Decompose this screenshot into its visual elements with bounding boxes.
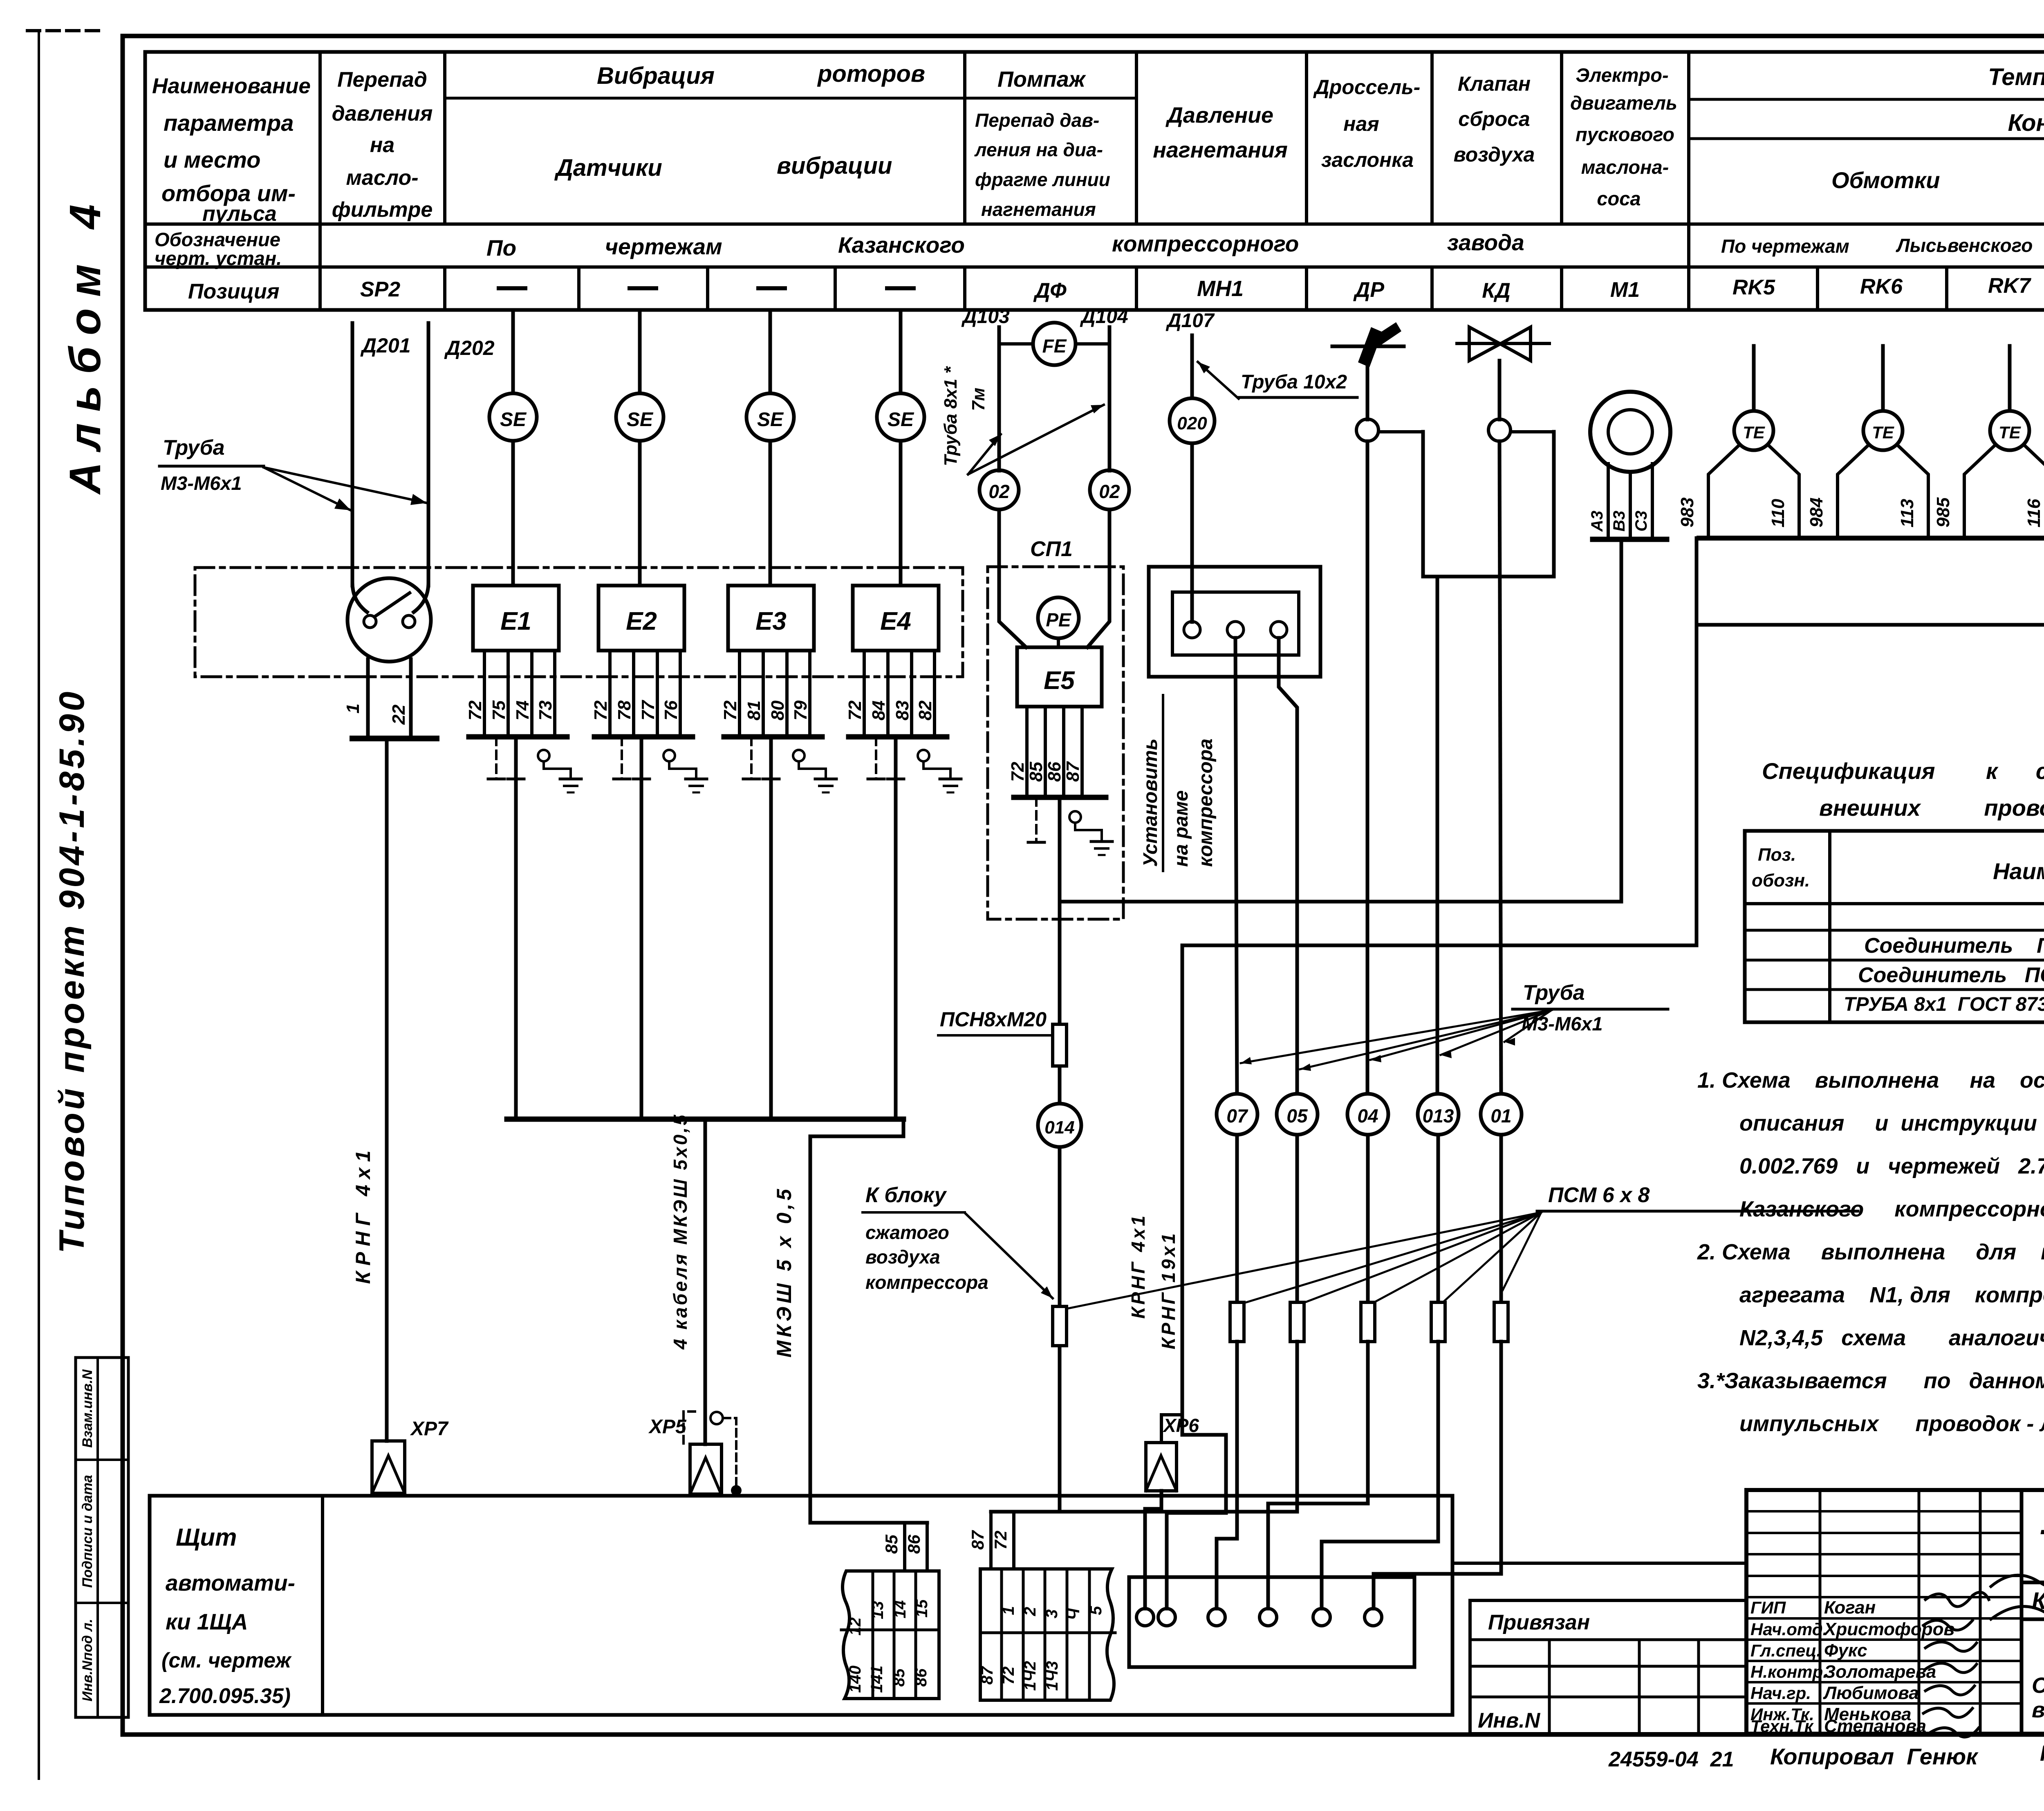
air jog box bottom (1423, 575, 1554, 579)
PSM connector on 04 line (1361, 1302, 1375, 1342)
Е4 ground bar 2 (888, 778, 904, 781)
Е4 ground symbol (940, 778, 961, 781)
SE2 wire from table (638, 310, 642, 393)
svg-text:СП1: СП1 (1030, 537, 1073, 561)
terminal strip circle 1 (1136, 1609, 1154, 1626)
air jog box left vertical (1421, 432, 1425, 577)
wire 07 upper (1235, 638, 1237, 1099)
svg-text:МКЭШ 5 х 0,5: МКЭШ 5 х 0,5 (773, 1186, 796, 1358)
position row divider x4762 (1945, 267, 1948, 310)
cable 4x MKESh to XP5 (704, 1119, 707, 1444)
svg-text:983: 983 (1677, 498, 1697, 527)
terminal strip circle 5 (1313, 1609, 1330, 1626)
Е2 ground symbol (686, 778, 707, 781)
junction horizontal 05-PSN (991, 1510, 1297, 1514)
PSN8xM20 connector (1053, 1024, 1067, 1066)
privjazan top line (1452, 1562, 1746, 1565)
spec row line 2 (1745, 959, 2044, 962)
TE collection bus (1699, 536, 2044, 541)
privjazan row 3 (1470, 1696, 1746, 1699)
wire 04 lower (1366, 1135, 1370, 1302)
svg-text:Д104: Д104 (1080, 306, 1128, 328)
svg-text:автомати-: автомати- (166, 1570, 295, 1596)
svg-text:141: 141 (868, 1665, 886, 1693)
Е4 terminal stub 72 (863, 651, 866, 736)
svg-text:Нач.отд.: Нач.отд. (1750, 1620, 1827, 1639)
E group collection bus (507, 1117, 903, 1122)
svg-text:140: 140 (846, 1665, 864, 1693)
svg-text:нагнетания: нагнетания (1153, 138, 1288, 162)
butterfly valve symbol (1457, 342, 1549, 345)
Е2 terminal stub 77 (656, 651, 659, 736)
wire 01 step to terminal (1374, 1342, 1501, 1609)
svg-text:Е1: Е1 (500, 607, 531, 635)
svg-text:описания и инструкции п: описания и инструкции по эксплуатации (1739, 1111, 2044, 1136)
svg-text:78: 78 (614, 700, 634, 720)
svg-text:сжатого: сжатого (865, 1222, 949, 1243)
svg-text:SE: SE (757, 409, 784, 431)
svg-text:ГИП: ГИП (1750, 1598, 1786, 1617)
SE3 wire to E3 (769, 441, 772, 586)
svg-text:ки 1ЩА: ки 1ЩА (166, 1609, 248, 1634)
svg-text:внешних проводок.: внешних проводок. (2032, 1698, 2044, 1722)
ustanovit circle 3 (1271, 622, 1287, 638)
svg-text:85: 85 (890, 1668, 908, 1687)
svg-text:014: 014 (1044, 1118, 1074, 1138)
svg-text:Перепад дав-: Перепад дав- (975, 110, 1099, 131)
valve circle right (1488, 419, 1511, 441)
svg-text:Давление: Давление (1165, 103, 1273, 128)
svg-text:Перепад: Перепад (337, 68, 427, 92)
wire D104 (1108, 327, 1112, 471)
svg-text:86: 86 (1044, 762, 1065, 782)
Е2 ground bar 2 (633, 778, 650, 781)
position row divider x2780 (1135, 267, 1138, 310)
orifice circle 02 left (979, 470, 1019, 509)
svg-text:черт. устан.: черт. устан. (155, 247, 282, 269)
header column line x2360 (963, 52, 966, 224)
connector XP6 funnel (1146, 1443, 1177, 1491)
svg-text:Щит: Щит (176, 1524, 237, 1551)
orifice circle 020 (1170, 398, 1215, 443)
svg-text:22: 22 (389, 705, 409, 725)
pressure point circle 05 (1277, 1094, 1318, 1135)
privjazan box (1470, 1600, 1746, 1734)
SE1 wire to E1 (511, 441, 515, 586)
stamp column line 1 (76, 1459, 128, 1461)
svg-text:Обмотки: Обмотки (1831, 167, 1940, 193)
svg-text:N2,3,4,5 схема аналоги: N2,3,4,5 схема аналогична. (1739, 1326, 2044, 1350)
SE4 wire to E4 (899, 441, 903, 586)
wire 04 upper (1366, 441, 1369, 1100)
svg-text:04: 04 (1357, 1105, 1378, 1127)
svg-text:TE: TE (1999, 423, 2022, 442)
Е1 output cable (514, 737, 518, 1119)
svg-text:фрагме линии: фрагме линии (975, 169, 1110, 190)
svg-text:72: 72 (991, 1530, 1010, 1550)
svg-text:роторов: роторов (817, 61, 925, 87)
title designation cell line (2022, 1581, 2044, 1584)
Е3 ground tie circle (793, 750, 805, 761)
position row divider x3820 (1560, 267, 1563, 310)
svg-text:В3: В3 (1610, 511, 1628, 532)
position row divider x1731 (706, 267, 709, 310)
svg-text:Любимова: Любимова (1823, 1683, 1919, 1703)
svg-text:Коган: Коган (1824, 1598, 1876, 1618)
svg-text:Помпаж: Помпаж (997, 67, 1087, 92)
svg-text:обозн.: обозн. (1752, 871, 1810, 891)
row2 divider col1 (318, 224, 322, 267)
svg-text:1Ч2: 1Ч2 (1021, 1661, 1039, 1691)
header table outer (145, 52, 2044, 310)
svg-text:Привязан: Привязан (1488, 1611, 1590, 1634)
svg-text:72: 72 (465, 700, 485, 720)
row2 divider col mid (1687, 224, 1690, 267)
machine boundary dash-dot box (195, 568, 963, 677)
svg-text:К блоку: К блоку (865, 1183, 947, 1207)
wire 07 step to terminal (1217, 1342, 1237, 1609)
Е3 terminal stub 80 (785, 651, 789, 736)
svg-text:24559-04 21: 24559-04 21 (1608, 1748, 1734, 1771)
svg-text:ТРУБА 8х1 ГОСТ 8734-75: ТРУБА 8х1 ГОСТ 8734-75 (1844, 994, 2044, 1015)
switch wire bend right (414, 583, 428, 612)
svg-text:Контроль: Контроль (2008, 110, 2044, 136)
privjazan col 1 (1548, 1640, 1551, 1734)
svg-text:Клапан: Клапан (1458, 72, 1531, 95)
motor cable down (1620, 539, 1623, 902)
vibration group subtitle line (445, 97, 1136, 100)
Е3 terminal stub 79 (808, 651, 811, 736)
svg-text:импульсных проводок - лис: импульсных проводок - лист ЧО (1739, 1412, 2044, 1436)
pressure point circle 013 (1418, 1094, 1459, 1135)
MKESh branch jog (810, 1119, 903, 1136)
wire 07 lower (1235, 1135, 1239, 1302)
terminal stub 85 (903, 1523, 906, 1571)
spec header line (1745, 902, 2044, 905)
Е3 terminal bus (724, 734, 822, 740)
switch contact right (403, 615, 415, 628)
position dash 4 (887, 286, 914, 290)
svg-text:Н.контр.: Н.контр. (1750, 1662, 1828, 1681)
Е2 output cable (640, 737, 643, 1119)
jog horizontal h1 (1060, 900, 1621, 904)
svg-text:агрегата N1, для компрес: агрегата N1, для компрессорных агрегатов (1739, 1283, 2044, 1307)
position row divider x4131 (1687, 267, 1690, 310)
XP5 drain dot (731, 1485, 742, 1496)
svg-text:Подписи и дата: Подписи и дата (80, 1475, 95, 1588)
svg-text:TE: TE (1743, 423, 1766, 442)
pressure gauge 014 circle (1038, 1104, 1081, 1147)
truba 8x1 leader lines (968, 434, 1001, 474)
terminal block 1 (843, 1571, 939, 1699)
svg-text:Христофоров: Христофоров (1823, 1619, 1954, 1639)
svg-text:давления: давления (332, 102, 433, 126)
E5 terminal stub 85 (1044, 707, 1047, 797)
svg-text:02: 02 (988, 481, 1010, 502)
connector XP7 funnel (372, 1441, 405, 1493)
svg-text:пульса: пульса (202, 202, 277, 226)
Е2 terminal bus (594, 734, 693, 740)
panel label cell divider (321, 1496, 324, 1712)
header column line x3503 (1430, 52, 1434, 224)
svg-text:PE: PE (1046, 609, 1071, 631)
svg-text:МН1: МН1 (1197, 276, 1244, 301)
svg-text:85: 85 (1026, 762, 1046, 782)
Е2 ground tie circle (663, 750, 675, 761)
truba fan leaders (1241, 1010, 1552, 1063)
svg-text:Соединитель ПСМ 6х8: Соединитель ПСМ 6х8 (1864, 934, 2044, 958)
terminal strip circle 3 (1208, 1609, 1225, 1626)
svg-text:ная: ная (1343, 112, 1379, 135)
spec row line 3 (1745, 988, 2044, 991)
svg-text:83: 83 (892, 700, 912, 720)
svg-text:3: 3 (1043, 1609, 1061, 1618)
svg-text:Инв.N: Инв.N (1478, 1709, 1541, 1732)
svg-text:ДР: ДР (1353, 278, 1385, 302)
Е3 terminal stub 72 (738, 651, 741, 736)
svg-text:Фукс: Фукс (1824, 1640, 1867, 1661)
switch lever (375, 593, 410, 616)
svg-text:82: 82 (915, 700, 935, 720)
svg-text:параметра: параметра (164, 110, 294, 136)
Е1 ground bar 2 (508, 778, 524, 781)
wire 02L to E5 (999, 509, 1026, 647)
spec col pos (1828, 831, 1831, 1022)
air jog box right vertical (1552, 432, 1556, 577)
svg-text:нагнетания: нагнетания (981, 199, 1096, 220)
header column line x783 (318, 52, 322, 224)
ustanovit inner box (1172, 592, 1299, 655)
header table row line 1 (145, 222, 2044, 226)
svg-text:на раме: на раме (1170, 790, 1192, 867)
valve line left (1366, 346, 1369, 420)
vibration sensor SE2 circle (616, 393, 663, 441)
E5 terminal stub 86 (1062, 707, 1065, 797)
svg-text:масло-: масло- (346, 166, 418, 190)
Е2 terminal stub 76 (679, 651, 682, 736)
svg-text:1: 1 (343, 704, 363, 714)
header column line x4131 (1687, 52, 1690, 224)
svg-text:RK7: RK7 (1988, 274, 2031, 298)
sig col 2 (1918, 1490, 1921, 1734)
motor terminal bus (1593, 537, 1667, 542)
jog horizontal h2 (1182, 944, 1697, 947)
position row divider x2043 (834, 267, 837, 310)
Е3 terminal stub 81 (762, 651, 765, 736)
sig col 1 (1819, 1490, 1822, 1734)
E5 output cable PSN8xM20 line (1058, 797, 1062, 1512)
svg-text:77: 77 (638, 700, 658, 720)
wire D202 (427, 323, 430, 586)
svg-text:Е4: Е4 (880, 607, 911, 635)
terminal strip circle 2 (1158, 1609, 1175, 1626)
valve circle right stub (1511, 430, 1554, 433)
svg-text:Ч: Ч (1065, 1608, 1083, 1620)
truba 10x2 leader (1198, 362, 1239, 399)
svg-text:Наименование: Наименование (152, 74, 311, 98)
XP5 tie circle (710, 1412, 723, 1424)
position dash 1 (499, 286, 525, 290)
privjazan col 2 (1638, 1640, 1641, 1734)
header column line x3820 (1560, 52, 1563, 224)
valve line right (1498, 361, 1502, 420)
PSM connector on 013 line (1431, 1302, 1445, 1342)
stamp column box (76, 1358, 128, 1717)
svg-text:Казанского компрессорного: Казанского компрессорного завода. (1739, 1197, 2044, 1221)
svg-text:внешних проводок: внешних проводок (1819, 795, 2044, 821)
svg-text:81: 81 (744, 700, 764, 720)
wire D201 (351, 323, 354, 586)
svg-text:Т.П. 904 - 1 - 85. 90: Т.П. 904 - 1 - 85. 90 (2038, 1522, 2044, 1564)
svg-text:12: 12 (846, 1618, 864, 1636)
svg-text:ХР6: ХР6 (1162, 1415, 1199, 1436)
svg-text:72: 72 (845, 700, 865, 720)
wire 05 lower (1295, 1135, 1299, 1302)
converter box Е3 (728, 586, 814, 651)
vibration sensor SE4 circle (877, 393, 924, 441)
sheet left edge line (38, 31, 40, 1779)
svg-text:72: 72 (1008, 762, 1028, 782)
svg-text:Копировал Генюк: Копировал Генюк (1770, 1744, 1979, 1769)
svg-text:Электро-: Электро- (1576, 64, 1668, 86)
svg-text:Техн.Тк: Техн.Тк (1750, 1717, 1814, 1736)
svg-text:Степанова: Степанова (1824, 1716, 1926, 1736)
svg-text:15: 15 (913, 1599, 931, 1618)
SE1 wire from table (511, 310, 515, 393)
FE stub left (999, 342, 1033, 346)
XP5 dashed bracket (684, 1412, 695, 1443)
Е4 terminal stub 84 (886, 651, 890, 736)
wire XP6 to strip circle 1 (1145, 1491, 1161, 1609)
connector XP5 funnel (690, 1444, 722, 1494)
svg-text:013: 013 (1423, 1105, 1454, 1127)
converter box Е4 (853, 586, 939, 651)
svg-text:75: 75 (489, 700, 509, 720)
Е3 output cable (769, 737, 773, 1119)
Е1 terminal stub 72 (483, 651, 486, 736)
svg-text:Д107: Д107 (1165, 310, 1215, 332)
spec table outer (1745, 831, 2044, 1022)
Е2 shield dashed wire (621, 737, 623, 779)
svg-text:Поз.: Поз. (1758, 845, 1796, 865)
E5 shield dashed wire (1035, 797, 1038, 842)
svg-text:05: 05 (1286, 1105, 1308, 1127)
PE stub to E5 (1057, 638, 1060, 647)
vibration sensor SE3 circle (746, 393, 794, 441)
wire 013 lower (1437, 1135, 1440, 1302)
svg-text:113: 113 (1897, 499, 1917, 527)
privjazan row 2 (1470, 1665, 1746, 1668)
terminal strip circle 6 (1365, 1609, 1382, 1626)
Е1 ground tie circle (538, 750, 549, 761)
svg-text:маслона-: маслона- (1581, 156, 1669, 178)
privjazan row 1 (1470, 1638, 1746, 1641)
wire D103 (997, 327, 1001, 471)
stamp column line 2 (76, 1602, 128, 1604)
svg-text:Д202: Д202 (444, 337, 495, 359)
svg-text:соса: соса (1597, 188, 1641, 209)
TE 983 stem (1752, 346, 1756, 411)
svg-text:86: 86 (904, 1535, 923, 1554)
title block outer (1746, 1490, 2044, 1734)
converter box Е2 (598, 586, 684, 651)
svg-text:По: По (486, 235, 516, 260)
TE 985 stem (2008, 346, 2012, 411)
wire 01 upper (1499, 441, 1501, 1099)
position dash 2 (630, 286, 656, 290)
wire D107 (1190, 335, 1194, 622)
svg-text:Спецификация к схе: Спецификация к схеме соединений (1762, 758, 2044, 784)
position row divider x4446 (1816, 267, 1819, 310)
wire 05 upper (1279, 638, 1297, 1099)
svg-text:985: 985 (1933, 497, 1953, 527)
terminal stub 72b (1012, 1512, 1015, 1569)
valve circle left (1356, 419, 1378, 441)
E5 ground tie circle (1069, 811, 1081, 823)
svg-text:двигатель: двигатель (1570, 92, 1677, 114)
TE 984 stem (1881, 346, 1885, 411)
svg-text:компрессорного: компрессорного (1112, 231, 1299, 256)
svg-text:По чертежам: По чертежам (1721, 236, 1849, 257)
ustanovit circle 2 (1227, 622, 1244, 638)
svg-text:984: 984 (1806, 498, 1827, 527)
XP5 dashed drain wire (723, 1418, 736, 1484)
wire 04 step to terminal (1268, 1342, 1368, 1609)
E5 terminal stub 87 (1080, 707, 1084, 797)
switch contact left (364, 615, 376, 628)
PSM connector on 05 line (1290, 1302, 1304, 1342)
PSM connector on 01 line (1494, 1302, 1508, 1342)
header column line x3196 (1305, 52, 1308, 224)
XP6 branch to strip (1167, 1435, 1226, 1609)
svg-text:М3-М6х1: М3-М6х1 (161, 472, 242, 494)
svg-text:Кальку сверил Менькова: Кальку сверил Менькова (2040, 1741, 2044, 1766)
sig col 3 (1979, 1490, 1982, 1734)
position row divider x2360 (963, 267, 966, 310)
SE4 wire from table (899, 310, 903, 393)
svg-text:чертежам: чертежам (605, 234, 722, 259)
Е1 ground symbol (560, 778, 581, 781)
panel Shchit avtomatiki outline (150, 1496, 1452, 1715)
privjazan col 3 (1697, 1640, 1700, 1734)
svg-text:ПСМ 6 х 8: ПСМ 6 х 8 (1548, 1183, 1650, 1207)
svg-text:Альбом 4: Альбом 4 (60, 193, 110, 495)
terminal strip circle 4 (1260, 1609, 1277, 1626)
svg-text:SP2: SP2 (360, 278, 400, 301)
Е1 terminal stub 73 (553, 651, 556, 736)
Е4 ground tie circle (918, 750, 929, 761)
pressure point circle 07 (1217, 1094, 1257, 1135)
svg-text:1: 1 (1000, 1606, 1018, 1615)
svg-text:72: 72 (591, 700, 611, 720)
svg-text:0.002.769 и чертежей 2.7: 0.002.769 и чертежей 2.700.095.35, 2.700… (1739, 1154, 2044, 1178)
switch terminal wire 1 (366, 659, 370, 738)
cable MKESh 5x0.5 (809, 1136, 812, 1523)
svg-text:компрессора: компрессора (865, 1272, 988, 1293)
terminal stub 86 (926, 1523, 929, 1571)
svg-text:Схема соединений: Схема соединений (2032, 1673, 2044, 1698)
svg-text:Соединитель ПСН 8 х М20: Соединитель ПСН 8 х М20 (1858, 963, 2044, 987)
svg-text:87: 87 (1063, 761, 1083, 782)
RK3 RK4 branch line (1699, 623, 2044, 627)
switch terminal bus (352, 736, 437, 741)
svg-text:Труба 8х1 *: Труба 8х1 * (941, 366, 961, 466)
ustanovit circle 1 (1184, 622, 1200, 638)
wire 02R to E5 (1087, 509, 1109, 647)
Е4 shield dashed wire (875, 737, 877, 779)
Е3 ground symbol (815, 778, 836, 781)
svg-text:RK5: RK5 (1732, 276, 1775, 299)
